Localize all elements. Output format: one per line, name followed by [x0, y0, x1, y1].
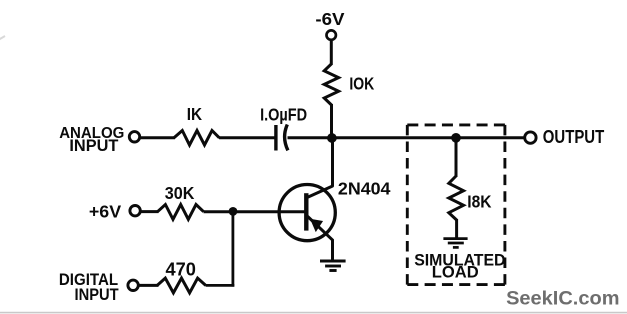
svg-text:INPUT: INPUT: [69, 136, 118, 155]
terminal ANALOG INPUT: [129, 132, 139, 142]
wire collector diagonal: [307, 186, 333, 198]
resistor R 10K: [324, 64, 338, 105]
resistor R 1K: [174, 131, 219, 146]
wire collector vertical: [331, 136, 334, 187]
wire capacitor to node A: [288, 136, 334, 139]
svg-text:30K: 30K: [165, 183, 195, 203]
wire 30K to base node: [204, 210, 305, 213]
wire 470 to vertical riser: [206, 284, 235, 287]
svg-text:-6V: -6V: [315, 9, 344, 29]
resistor R 18K: [449, 176, 464, 220]
terminal DIGITAL INPUT: [128, 280, 138, 290]
resistor R 30K: [158, 205, 204, 220]
node A junction: [327, 133, 337, 143]
wire 10K to node A: [330, 104, 333, 138]
capacitor C 1.0uFD left plate: [274, 125, 277, 151]
resistor R 470: [157, 278, 206, 293]
bottom grey edge line: [0, 312, 627, 314]
svg-text:LOAD: LOAD: [432, 262, 479, 281]
terminal OUTPUT: [525, 132, 536, 143]
svg-text:+6V: +6V: [89, 202, 121, 222]
svg-text:IK: IK: [187, 104, 203, 124]
transistor emitter arrow: [311, 220, 322, 231]
svg-text:2N404: 2N404: [338, 178, 391, 198]
wire analog input to 1K: [141, 136, 176, 139]
stray scan mark left edge: [0, 36, 5, 40]
ground transistor emitter: [320, 261, 346, 271]
node C base junction: [229, 207, 238, 216]
node B junction: [451, 133, 461, 143]
svg-text:IOK: IOK: [349, 74, 374, 94]
wire node C down to 470: [231, 211, 234, 287]
svg-text:SeekIC.com: SeekIC.com: [506, 287, 619, 309]
transistor base bar: [304, 193, 308, 230]
wire -6V to 10K: [330, 41, 333, 65]
svg-text:I.OµFD: I.OµFD: [260, 104, 307, 124]
ground simulated load: [443, 239, 467, 248]
wire digital input to 470: [139, 284, 159, 287]
svg-text:I8K: I8K: [467, 191, 491, 211]
wire 1K to capacitor: [219, 136, 275, 139]
wire emitter vertical to ground: [331, 239, 334, 260]
wire +6V to 30K: [141, 210, 159, 213]
svg-text:INPUT: INPUT: [75, 285, 120, 304]
svg-text:470: 470: [166, 259, 196, 279]
transistor Q1 2N404 circle: [279, 185, 335, 241]
terminal -6V: [327, 30, 336, 39]
wire node B to 18K: [455, 137, 458, 177]
wire node A to node B to output: [331, 136, 524, 139]
terminal +6V: [130, 206, 140, 216]
wire 18K to ground: [455, 219, 458, 238]
wire emitter diagonal: [307, 216, 333, 241]
dashed box simulated load: [407, 125, 505, 285]
svg-text:OUTPUT: OUTPUT: [543, 126, 604, 147]
capacitor C 1.0uFD right plate: [285, 125, 288, 151]
